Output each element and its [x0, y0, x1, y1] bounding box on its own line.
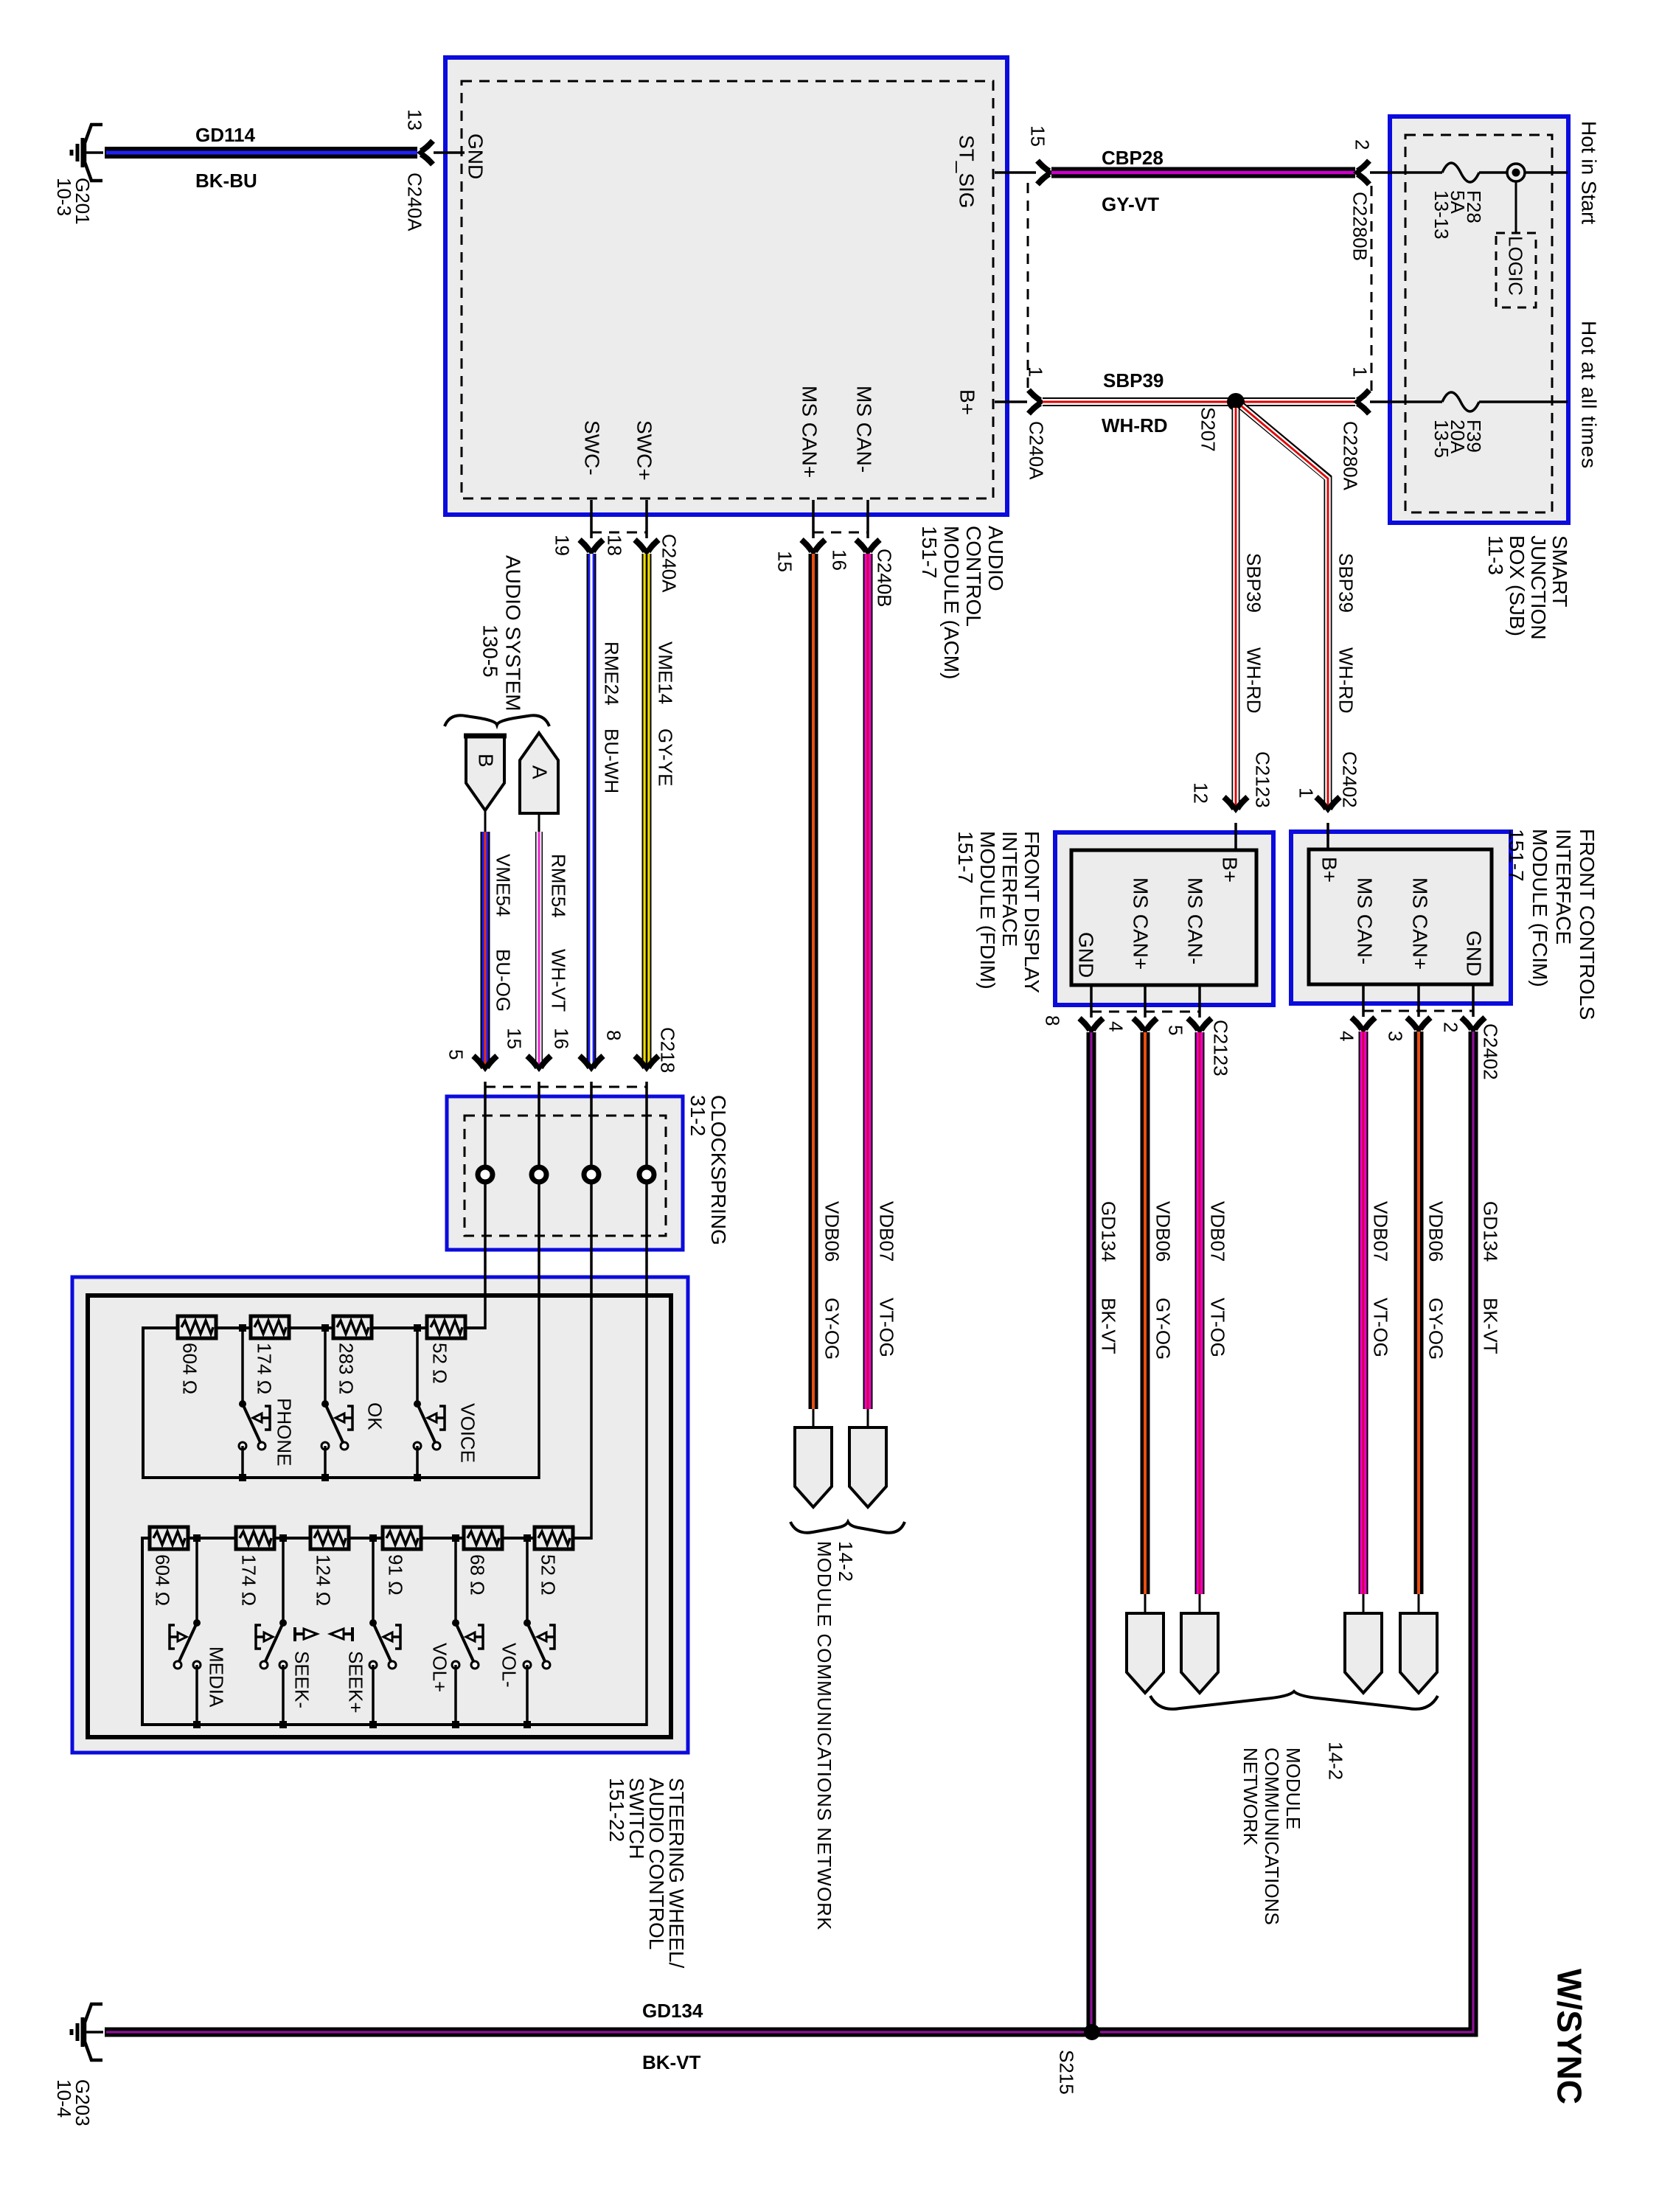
junction media top — [193, 1534, 201, 1542]
resistor 604 ohm (upper) — [178, 1316, 216, 1338]
wire clockspring out 2 to upper return bus — [538, 1182, 540, 1479]
switch SEEK+ — [369, 1619, 400, 1669]
wire stem vol- — [526, 1538, 529, 1623]
switch label VOICE — [457, 1403, 477, 1463]
wire GD134 BK-VT from FCIM GND — [105, 1032, 1473, 2032]
junction seek- bottom — [279, 1721, 287, 1728]
value label 68 ohm (lower) — [467, 1554, 487, 1596]
wire pin stub SWC+ pin 18 — [645, 500, 648, 538]
wire pin stub FCIM MS CAN- — [1362, 984, 1365, 1017]
junction vol- bottom — [524, 1721, 531, 1728]
ground label G203 — [55, 2079, 91, 2126]
net label GY-VT — [1102, 195, 1159, 215]
connector label C240A (GND) — [404, 173, 424, 232]
junction vol+ bottom — [452, 1721, 459, 1728]
connector letter A — [529, 765, 550, 779]
wire VME54 BU-OG — [481, 832, 490, 1067]
brace module communications network (left) — [790, 1522, 905, 1533]
module SJB inner dashed border — [1405, 135, 1552, 512]
wire seek+ to return bus — [372, 1665, 375, 1726]
resistor 52 ohm (lower) — [535, 1527, 573, 1549]
switch label OK — [364, 1402, 384, 1430]
pin number 3 (FCIM) — [1385, 1031, 1405, 1041]
clockspring terminal ring 4 — [639, 1167, 654, 1182]
connector label C240A (B+) — [1026, 421, 1046, 480]
module label clockspring — [687, 1095, 728, 1245]
value label 52 ohm (upper) — [429, 1343, 449, 1384]
net label VDB06 (FCIM) — [1425, 1201, 1445, 1262]
module steering wheel switch box — [72, 1277, 688, 1753]
wire stem media — [195, 1538, 198, 1623]
switch MEDIA — [170, 1619, 201, 1669]
connector arrow C218 pin 8 — [635, 1056, 658, 1068]
connector arrow C240A pin 18 — [635, 540, 658, 552]
resistor 52 ohm (upper) — [427, 1316, 465, 1338]
net label VME54 — [493, 854, 512, 917]
wire RME54 WH-VT — [535, 832, 543, 1067]
net label VME14 — [655, 641, 675, 704]
pin number 5 (FDIM) — [1165, 1025, 1185, 1035]
label 14-2 (right) — [1325, 1742, 1345, 1780]
wire stub B — [484, 810, 487, 832]
dashed connector link C240A side — [1027, 183, 1029, 394]
wire stub into clockspring pin5 — [484, 1082, 487, 1167]
clockspring terminal ring 1 — [478, 1167, 493, 1182]
ground label G201 — [55, 178, 91, 225]
wire media to return bus — [195, 1665, 198, 1726]
clockspring terminal ring 2 — [532, 1167, 546, 1182]
wire VME14 GY-YE — [642, 554, 652, 1067]
switch label VOL- — [498, 1643, 518, 1688]
terminator VDB07 (FCIM) — [1345, 1613, 1382, 1693]
pin number 18 — [604, 535, 624, 556]
resistor 174 ohm (upper) — [251, 1316, 289, 1338]
fuse label F28 — [1433, 190, 1482, 240]
pin number 13 — [404, 109, 424, 131]
brace module communications network (right) — [1150, 1691, 1438, 1709]
value label 124 ohm (lower) — [313, 1554, 333, 1606]
wire clockspring out 4 to lower return bus — [645, 1182, 648, 1726]
net label BU-OG — [493, 949, 512, 1012]
net label WH-RD (FCIM branch) — [1335, 647, 1355, 714]
net label VDB07 (ACM) — [876, 1201, 896, 1262]
pin number 1 (SJB F39) — [1349, 366, 1369, 377]
switch VOL- — [524, 1619, 554, 1669]
wire CBP28 GY-VT — [1051, 167, 1355, 178]
net label BU-WH — [601, 728, 621, 793]
pin label B+ (FCIM) — [1318, 857, 1340, 883]
resistor 283 ohm (upper) — [333, 1316, 372, 1338]
pin number 16 (C218) — [551, 1028, 571, 1049]
net label GD134 (FCIM) — [1480, 1201, 1500, 1262]
module clockspring box — [447, 1096, 683, 1250]
wire stem voice — [416, 1328, 419, 1404]
wire stub A — [538, 813, 540, 832]
net label WH-RD — [1102, 416, 1168, 436]
module FDIM box — [1055, 832, 1273, 1005]
connector arrow C240A pin 19 — [580, 540, 603, 552]
net label GD134 (FDIM) — [1098, 1201, 1118, 1262]
connector arrow C240B pin 16 — [856, 540, 880, 552]
wire stem seek+ — [372, 1538, 375, 1623]
module label ACM — [918, 526, 1006, 679]
wire stub into clockspring pin16 — [590, 1082, 593, 1167]
junction ok bottom — [321, 1474, 329, 1481]
wire phone to return bus — [241, 1446, 244, 1479]
terminator VDB06 (FCIM) — [1400, 1613, 1437, 1693]
wire F28 to feed point — [1479, 171, 1568, 174]
splice label S207 — [1197, 407, 1217, 452]
connector label C240B — [874, 549, 894, 608]
net label WH-VT — [548, 949, 568, 1012]
clockspring terminal ring 3 — [584, 1167, 599, 1182]
switch label MEDIA — [206, 1646, 226, 1707]
value label 91 ohm (lower) — [385, 1554, 405, 1596]
net label VDB07 (FDIM) — [1207, 1201, 1227, 1262]
pin number 1 (FCIM B+) — [1295, 787, 1315, 798]
wire ok to return bus — [324, 1446, 327, 1479]
net label VT-OG (ACM) — [876, 1298, 896, 1357]
pin label MS CAN- (FDIM) — [1184, 877, 1206, 964]
wire vol- to return bus — [526, 1665, 529, 1726]
connector arrow C2402 pin 1 — [1316, 797, 1340, 810]
dashed connector link C240B 15-16 — [813, 532, 868, 534]
junction seek- top — [279, 1534, 287, 1542]
net label WH-RD (FDIM branch) — [1243, 647, 1263, 714]
connector label C2123 (FDIM) — [1210, 1020, 1230, 1077]
terminator VDB07 (FDIM) — [1181, 1613, 1218, 1693]
module label FCIM — [1504, 829, 1599, 1020]
value label 604 ohm (upper) — [179, 1343, 199, 1394]
connector arrow C2402 pin 3 — [1407, 1018, 1430, 1030]
switch PHONE — [239, 1400, 270, 1450]
wire seek- to return bus — [282, 1665, 285, 1726]
fuse F39 — [1442, 392, 1479, 411]
net label BK-VT (FCIM) — [1480, 1298, 1500, 1354]
module FCIM box — [1291, 832, 1511, 1004]
connector arrow C2402 pin 2 — [1461, 1018, 1485, 1030]
wire stub into SJB — [1370, 171, 1442, 174]
pin label MS CAN- (ACM) — [853, 386, 874, 473]
value label 604 ohm (lower) — [152, 1554, 172, 1606]
dashed connector link C2123 — [1091, 1011, 1200, 1013]
connector arrow C2123 pin 12 — [1224, 797, 1248, 810]
pin number 4 (FCIM) — [1336, 1031, 1356, 1041]
value label 174 ohm (lower) — [238, 1554, 258, 1606]
module SJB box — [1390, 116, 1568, 523]
wire stub to terminator VDB07 — [867, 1409, 869, 1427]
wire pin stub FDIM MS CAN+ — [1144, 985, 1147, 1018]
junction voice bottom — [414, 1474, 421, 1481]
wire feed to LOGIC — [1515, 181, 1517, 233]
junction ok top — [321, 1324, 329, 1332]
wire stem seek- — [282, 1538, 285, 1623]
wire stub into FDIM B+ — [1234, 823, 1237, 850]
wire VDB07 VT-OG from FCIM MS CAN- — [1359, 1032, 1368, 1594]
junction phone bottom — [239, 1474, 246, 1481]
pin number 12 — [1190, 782, 1210, 804]
connector label C2402 (FCIM) — [1480, 1023, 1500, 1080]
connector label C2280B — [1349, 192, 1369, 261]
wire stub to terminator (FCIM CAN+) — [1418, 1594, 1420, 1613]
switch OK — [321, 1400, 352, 1450]
pin label ST_SIG — [956, 135, 977, 209]
wire stub into SJB F39 — [1370, 400, 1442, 403]
connector arrow C240B pin 15 — [801, 540, 825, 552]
pin label SWC+ — [633, 420, 655, 481]
wire VDB06 GY-OG from FCIM MS CAN+ — [1414, 1032, 1424, 1594]
terminator VDB06 (FDIM) — [1127, 1613, 1164, 1693]
connector arrow C2123 pin 4 — [1133, 1018, 1157, 1031]
junction seek+ bottom — [369, 1721, 377, 1728]
module ACM box — [445, 58, 1007, 515]
pin number 1 (ACM B+) — [1025, 366, 1045, 377]
pin number 2 (C2280B) — [1352, 139, 1371, 150]
net label VDB07 (FCIM) — [1370, 1201, 1390, 1262]
pin number 8 (FDIM) — [1042, 1015, 1062, 1026]
connector label C2123 (B+) — [1252, 751, 1272, 808]
switch VOL+ — [452, 1619, 483, 1669]
net label SBP39 (FCIM branch) — [1335, 553, 1355, 613]
net label BK-VT (FDIM) — [1098, 1298, 1118, 1354]
wire stub to terminator VDB06 — [813, 1409, 815, 1427]
connector arrow C2280A pin 1 — [1357, 390, 1369, 414]
wire voice to return bus — [416, 1446, 419, 1479]
brace audio system — [445, 715, 549, 726]
switch label SEEK- — [291, 1651, 311, 1708]
terminator VDB07 — [849, 1427, 886, 1507]
wire pin stub GND — [434, 151, 465, 154]
ground G201 — [72, 125, 103, 181]
switch VOICE — [414, 1400, 445, 1450]
junction phone top — [239, 1324, 246, 1332]
wire VDB07 VT-OG (ACM) — [863, 554, 873, 1409]
module label SJB — [1485, 535, 1571, 640]
pin number 8 (C218) — [603, 1030, 623, 1040]
label AUDIO SYSTEM — [502, 555, 524, 712]
resistor 174 ohm (lower) — [236, 1527, 274, 1549]
connector arrow C218 pin 16 — [580, 1056, 603, 1068]
connector B top bar — [464, 734, 507, 739]
net label RME54 — [548, 854, 568, 918]
module label FDIM — [954, 831, 1043, 993]
connector A (audio system) — [520, 733, 558, 813]
resistor 91 ohm (lower) — [383, 1527, 421, 1549]
net label VT-OG (FCIM) — [1370, 1298, 1390, 1357]
value label 174 ohm (upper) — [254, 1343, 274, 1394]
module steering wheel switch inner box — [88, 1295, 671, 1737]
wire stub into clockspring pin15 — [538, 1082, 540, 1167]
ground G203 — [72, 2004, 103, 2060]
connector arrow C218 pin 5 — [473, 1056, 497, 1068]
resistor 604 ohm (lower) — [150, 1527, 188, 1549]
wire VDB06 GY-OG (ACM) — [809, 554, 818, 1409]
wire SBP39 WH-RD vertical branch to FDIM — [1232, 406, 1240, 808]
label module communications network (left) — [813, 1541, 856, 1930]
connector letter B — [475, 754, 496, 768]
pin label GND (ACM) — [465, 133, 486, 179]
wire RME24 BU-WH — [587, 554, 597, 1067]
connector arrow C240A pin 1 — [1029, 390, 1041, 414]
dashed connector link C240A 19-18 — [591, 532, 647, 534]
junction voice top — [414, 1324, 421, 1332]
wire clockspring out 1 to upper bus — [484, 1182, 487, 1329]
LOGIC dashed box — [1496, 233, 1536, 307]
wire F39 to right border — [1479, 400, 1568, 403]
value label 283 ohm (upper) — [335, 1343, 355, 1394]
net label VDB06 (ACM) — [821, 1201, 841, 1262]
connector label C240A (bottom) — [658, 534, 678, 593]
wire pin stub FCIM GND — [1472, 984, 1475, 1017]
seek rocker link arrows — [294, 1627, 353, 1641]
net label SBP39 — [1103, 371, 1164, 391]
wire stub into FCIM B+ — [1326, 823, 1329, 849]
net label VDB06 (FDIM) — [1152, 1201, 1172, 1262]
wire VDB06 GY-OG from FDIM MS CAN+ — [1141, 1032, 1150, 1594]
pin label SWC- — [581, 420, 602, 476]
junction vol+ top — [452, 1534, 459, 1542]
wire pin stub ST_SIG — [995, 171, 1036, 174]
dashed connector link C2280 side — [1371, 186, 1373, 394]
pin number 5 (C218) — [445, 1049, 465, 1060]
fuse F28 — [1442, 163, 1479, 182]
connector label C218 — [657, 1027, 677, 1073]
connector arrow C2280B pin 15 — [1037, 161, 1050, 184]
dashed connector link C218 — [485, 1086, 647, 1088]
wire SBP39 WH-RD diagonal branch to FCIM — [1240, 405, 1328, 808]
net label GY-OG (FCIM) — [1425, 1298, 1445, 1360]
pin number 4 (FDIM) — [1105, 1021, 1125, 1032]
wire pin stub MS CAN- pin 16 — [866, 500, 869, 538]
wire pin stub B+ — [995, 400, 1027, 403]
wire pin stub SWC- pin 19 — [590, 500, 593, 538]
pin number 15 (C218) — [504, 1028, 524, 1049]
label LOGIC — [1505, 236, 1525, 296]
wire pin stub FDIM MS CAN- — [1198, 985, 1201, 1018]
junction media bottom — [193, 1721, 201, 1728]
power feed symbol — [1507, 164, 1525, 181]
wire stub to terminator (FCIM CAN-) — [1363, 1594, 1365, 1613]
connector arrow C2123 pin 5 — [1188, 1018, 1211, 1031]
switch label PHONE — [274, 1398, 293, 1466]
switch label SEEK+ — [345, 1651, 365, 1714]
label module communications network (right) — [1239, 1747, 1304, 1925]
pin number 16 (C240B) — [829, 549, 849, 571]
net label RME24 — [601, 641, 621, 706]
pin label MS CAN+ (FCIM) — [1409, 877, 1430, 970]
wire pin stub FCIM MS CAN+ — [1417, 984, 1420, 1017]
module label steering wheel switch — [607, 1778, 686, 1968]
connector arrow C218 pin 15 — [527, 1056, 551, 1068]
label W/SYNC — [1551, 1969, 1587, 2104]
connector B (audio system) — [466, 736, 504, 810]
switch label VOL+ — [429, 1643, 449, 1692]
resistor 68 ohm (lower) — [464, 1527, 502, 1549]
junction seek+ top — [369, 1534, 377, 1542]
net label GY-OG (ACM) — [821, 1298, 841, 1360]
net label VT-OG (FDIM) — [1207, 1298, 1227, 1357]
wire vol+ to return bus — [454, 1665, 457, 1726]
terminator VDB06 — [795, 1427, 832, 1507]
connector arrow C2402 pin 4 — [1352, 1018, 1375, 1030]
value label 52 ohm (lower) — [538, 1554, 557, 1596]
switch SEEK- — [256, 1619, 287, 1669]
net label GY-YE — [655, 728, 675, 787]
wire pin stub MS CAN+ pin 15 — [812, 500, 815, 538]
module FDIM inner box — [1071, 850, 1256, 985]
pin number 15 (ST_SIG) — [1027, 125, 1047, 147]
wire stem phone — [241, 1328, 244, 1404]
net label CBP28 — [1102, 148, 1164, 168]
wire SBP39 WH-RD left segment — [1043, 397, 1355, 406]
dashed connector link C2402 — [1363, 1010, 1473, 1012]
connector arrow C2280B pin 2 — [1357, 161, 1369, 184]
resistor 124 ohm (lower) — [310, 1527, 349, 1549]
connector label C2402 (B+) — [1339, 751, 1359, 808]
net label BK-BU — [195, 171, 257, 191]
pin label GND (FCIM) — [1463, 931, 1484, 976]
fuse label F39 — [1433, 420, 1482, 458]
module clockspring inner dashed border — [465, 1116, 666, 1236]
header Hot at all times — [1578, 321, 1599, 469]
module ACM inner dashed border — [462, 81, 993, 498]
connector arrow C240A pin 13 — [420, 141, 433, 164]
net label SBP39 (FDIM branch) — [1243, 553, 1263, 613]
wire pin stub FDIM GND — [1090, 985, 1093, 1018]
wire stem vol+ — [454, 1538, 457, 1623]
wire clockspring out 3 to lower bus — [590, 1182, 593, 1540]
connector arrow C2123 pin 8 — [1079, 1018, 1103, 1031]
pin label MS CAN- (FCIM) — [1354, 877, 1375, 964]
header Hot in Start — [1578, 121, 1599, 224]
net label BK-VT — [642, 2053, 700, 2073]
splice label S215 — [1056, 2050, 1076, 2095]
wire GD134 BK-VT from FDIM GND — [1087, 1032, 1096, 2032]
junction vol- top — [524, 1534, 531, 1542]
module FCIM inner box — [1309, 849, 1492, 984]
net label GY-OG (FDIM) — [1152, 1298, 1172, 1360]
wire upper bus — [143, 1328, 539, 1478]
pin label MS CAN+ (FDIM) — [1130, 877, 1151, 970]
pin number 19 — [552, 535, 571, 556]
wire lower bus — [142, 1538, 647, 1725]
wire VDB07 VT-OG from FDIM MS CAN- — [1195, 1032, 1205, 1594]
wire stub to terminator (FDIM CAN-) — [1199, 1594, 1201, 1613]
splice S215 — [1084, 2024, 1100, 2040]
net label GD134 — [642, 2001, 703, 2021]
wire stem ok — [324, 1328, 327, 1404]
label 130-5 — [479, 625, 501, 678]
pin label B+ (ACM) — [956, 389, 978, 415]
pin number 15 (C240B) — [774, 551, 794, 572]
splice S207 — [1227, 393, 1245, 411]
pin label B+ (FDIM) — [1219, 857, 1240, 883]
wire stub to terminator (FDIM CAN+) — [1144, 1594, 1147, 1613]
pin number 2 (FCIM) — [1440, 1022, 1460, 1032]
pin label GND (FDIM) — [1075, 932, 1096, 978]
net label GD114 — [195, 125, 255, 145]
connector label C2280A — [1340, 421, 1360, 490]
wire GD114 BK-BU — [105, 147, 417, 159]
pin label MS CAN+ (ACM) — [799, 386, 820, 478]
wire stub into clockspring pin8 — [645, 1082, 648, 1167]
